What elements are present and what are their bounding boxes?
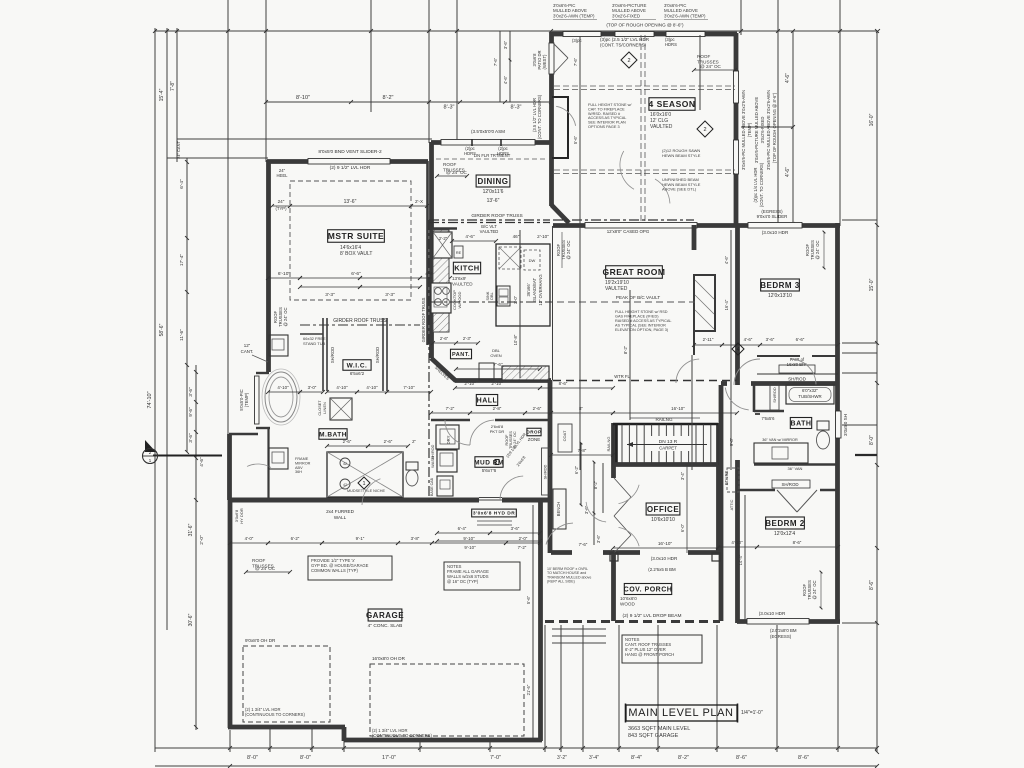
fridge enclosure bbox=[454, 246, 463, 258]
dim row office y548 bbox=[613, 547, 718, 549]
wall master suite top bbox=[267, 159, 428, 164]
svg-text:8'-10": 8'-10" bbox=[296, 95, 310, 101]
svg-text:(CONT. TO CORNERS): (CONT. TO CORNERS) bbox=[759, 162, 764, 207]
svg-text:FRAME: FRAME bbox=[295, 457, 309, 461]
svg-text:9'-6": 9'-6" bbox=[188, 407, 194, 417]
svg-text:3'-6": 3'-6" bbox=[188, 433, 194, 443]
drop zone bbox=[526, 428, 541, 436]
svg-text:10'6x10'10: 10'6x10'10 bbox=[651, 517, 675, 523]
dimension line left vertical 58-6 bbox=[166, 28, 168, 630]
stair treads bbox=[621, 425, 623, 465]
dryer laundry bbox=[436, 425, 459, 449]
svg-text:KITCH: KITCH bbox=[454, 264, 479, 273]
wall bedrm2 closet bbox=[737, 489, 775, 491]
diamond marker 2b bbox=[697, 121, 713, 137]
door arc wc nook bbox=[247, 464, 271, 467]
svg-text:2'-11": 2'-11" bbox=[703, 337, 714, 342]
slider great room north bbox=[585, 223, 697, 229]
svg-text:3'-4": 3'-4" bbox=[589, 755, 599, 761]
svg-text:17'-4": 17'-4" bbox=[179, 254, 185, 267]
svg-text:(2) 9 1/2" LVL DROP BEAM: (2) 9 1/2" LVL DROP BEAM bbox=[623, 613, 682, 619]
svg-text:ACCESS AS TYPICAL: ACCESS AS TYPICAL bbox=[588, 116, 626, 120]
svg-text:PKT DR: PKT DR bbox=[490, 429, 505, 434]
svg-text:8'-3": 8'-3" bbox=[511, 105, 522, 111]
dimension line bottom y766 bbox=[155, 765, 877, 767]
girder vertical kitchen west bbox=[428, 220, 430, 500]
dimension line left vertical 74-10 bbox=[154, 28, 156, 752]
svg-text:16'0x8'0 OH DR: 16'0x8'0 OH DR bbox=[372, 656, 406, 661]
svg-text:@ 24" OC: @ 24" OC bbox=[513, 431, 517, 448]
door chevron patio 4season bbox=[553, 43, 568, 58]
dimension line left vertical col3 bbox=[176, 28, 178, 162]
room label bedrm2 bbox=[765, 517, 805, 529]
svg-text:CARPET: CARPET bbox=[659, 446, 677, 451]
dimension vertical x510 bbox=[509, 31, 511, 102]
svg-text:3'-3": 3'-3" bbox=[325, 292, 335, 298]
window 4-season top 2 bbox=[615, 32, 654, 37]
dim row kitchen y343 bbox=[431, 341, 435, 345]
dimension line y158 horizontal bbox=[167, 157, 268, 159]
svg-text:12'0x13'10: 12'0x13'10 bbox=[768, 293, 792, 299]
svg-text:2'-6": 2'-6" bbox=[440, 336, 449, 341]
girder roof truss line dining bbox=[429, 219, 550, 221]
svg-text:4: 4 bbox=[736, 347, 739, 353]
svg-text:12": 12" bbox=[244, 343, 251, 348]
svg-text:VAULTED: VAULTED bbox=[650, 124, 673, 130]
wall kitchen angle bbox=[431, 358, 456, 381]
svg-text:7'-8": 7'-8" bbox=[578, 448, 587, 453]
wall stairs-office west bbox=[611, 423, 616, 478]
office interior dim x687 bbox=[686, 466, 688, 553]
svg-text:ROOF: ROOF bbox=[252, 558, 265, 563]
svg-text:3'-0": 3'-0" bbox=[513, 295, 518, 304]
svg-text:(TOP OF ROUGH OPENING @ 8'-6"): (TOP OF ROUGH OPENING @ 8'-6") bbox=[772, 92, 777, 163]
dim horizontal y455 entry bbox=[551, 454, 613, 456]
svg-text:6'-4": 6'-4" bbox=[458, 526, 467, 531]
svg-text:SH/ROD: SH/ROD bbox=[781, 482, 798, 487]
tub bath bbox=[786, 385, 834, 404]
svg-text:GIRDER ROOF TRUSS: GIRDER ROOF TRUSS bbox=[333, 318, 387, 324]
svg-text:2'-6": 2'-6" bbox=[384, 439, 393, 444]
dimension line left vertical col4 bbox=[186, 158, 188, 452]
window bedrm2 right bbox=[836, 411, 842, 438]
svg-text:(CONTINUOUS TO CORNERS): (CONTINUOUS TO CORNERS) bbox=[245, 712, 305, 717]
svg-text:843 SQFT GARAGE: 843 SQFT GARAGE bbox=[628, 733, 679, 739]
svg-text:58'-6": 58'-6" bbox=[159, 323, 165, 336]
svg-text:COAT: COAT bbox=[562, 430, 567, 441]
svg-text:6'-2": 6'-2" bbox=[574, 465, 579, 474]
svg-text:VAULTED: VAULTED bbox=[605, 286, 628, 292]
island sink bbox=[497, 286, 510, 306]
svg-text:SH/ROD: SH/ROD bbox=[431, 444, 435, 459]
svg-text:8'-6": 8'-6" bbox=[559, 381, 568, 386]
room label kitchen bbox=[453, 262, 480, 274]
dim row master y278 bbox=[268, 277, 300, 279]
wall kitchen north stub bbox=[431, 227, 457, 229]
island kitchen bbox=[496, 244, 550, 326]
stair newel left bbox=[615, 424, 618, 464]
svg-text:(EGRESS): (EGRESS) bbox=[761, 209, 783, 214]
bench entry bbox=[553, 489, 566, 529]
niche bump 4-season left wall bbox=[552, 97, 568, 158]
svg-text:3'-4": 3'-4" bbox=[680, 471, 685, 480]
svg-text:ISLAND/EAT: ISLAND/EAT bbox=[532, 277, 537, 302]
svg-text:2'-2": 2'-2" bbox=[439, 236, 448, 241]
svg-text:8'-0": 8'-0" bbox=[300, 755, 311, 761]
svg-text:3'0x6'6-PIC MULLED ABOVE 3'0: 3'0x6'6-PIC MULLED ABOVE 3'0x2'6-AWN bbox=[766, 90, 771, 170]
svg-text:8'-6": 8'-6" bbox=[869, 580, 875, 590]
svg-text:BEDRM 3: BEDRM 3 bbox=[760, 281, 800, 290]
svg-text:ABOVE (SEE DTL): ABOVE (SEE DTL) bbox=[662, 187, 697, 192]
svg-text:HDRS: HDRS bbox=[665, 42, 677, 47]
dim row hall y368 bbox=[456, 368, 540, 370]
arc decorative 4season bbox=[620, 151, 634, 189]
svg-text:4'-0": 4'-0" bbox=[245, 536, 254, 541]
svg-text:11'-6": 11'-6" bbox=[179, 329, 185, 341]
svg-text:MAIN LEVEL PLAN: MAIN LEVEL PLAN bbox=[628, 707, 733, 719]
svg-text:46": 46" bbox=[513, 234, 520, 239]
svg-text:8' BOX VAULT: 8' BOX VAULT bbox=[340, 251, 372, 257]
wall garage top bbox=[228, 498, 479, 503]
vertical dim foyer x594 bbox=[593, 462, 595, 545]
svg-text:3'0x2'6-FIXED: 3'0x2'6-FIXED bbox=[612, 13, 640, 18]
door arc great room to hall bbox=[676, 359, 699, 383]
dim row kitchen y240 bbox=[452, 240, 496, 242]
svg-text:(TEMP): (TEMP) bbox=[244, 392, 249, 407]
counter kitchen west bbox=[433, 230, 449, 332]
oh door 1 dashed bbox=[243, 646, 330, 722]
wall great room north bbox=[553, 223, 737, 228]
dim row hall y388 bbox=[455, 387, 540, 389]
ceiling dashes 4season h2 bbox=[554, 169, 735, 171]
svg-text:CLOSET: CLOSET bbox=[318, 400, 322, 416]
svg-text:FULL HEIGHT STONE w/: FULL HEIGHT STONE w/ bbox=[588, 103, 632, 107]
island hatch corner bbox=[499, 247, 521, 269]
room label dining bbox=[476, 175, 510, 187]
svg-text:8'-0": 8'-0" bbox=[869, 435, 875, 445]
svg-text:AS TYPICAL (SEE INTERIOR: AS TYPICAL (SEE INTERIOR bbox=[615, 324, 666, 328]
svg-text:DRY: DRY bbox=[446, 435, 451, 444]
door garage-mud threshold bbox=[479, 499, 502, 501]
wall wic top bbox=[300, 333, 323, 335]
svg-text:HEWN BEAM STYLE: HEWN BEAM STYLE bbox=[662, 153, 701, 158]
svg-text:3'-3": 3'-3" bbox=[385, 292, 395, 298]
fireplace great room bbox=[694, 275, 715, 331]
svg-text:ATTIC: ATTIC bbox=[730, 499, 734, 510]
vanity master south bbox=[269, 448, 288, 469]
svg-text:ELEVATION OPTION, PAGE 3): ELEVATION OPTION, PAGE 3) bbox=[615, 328, 669, 332]
svg-text:BENCH: BENCH bbox=[556, 502, 561, 517]
svg-text:SEE INTERIOR PLAN: SEE INTERIOR PLAN bbox=[588, 121, 626, 125]
svg-text:16'-4": 16'-4" bbox=[724, 299, 729, 310]
dimension line y139 horizontal bbox=[177, 138, 432, 140]
svg-text:SH/ROD: SH/ROD bbox=[544, 464, 548, 479]
svg-text:2'-6": 2'-6" bbox=[343, 439, 352, 444]
svg-text:CAP. TO FIREPLACE: CAP. TO FIREPLACE bbox=[588, 107, 625, 111]
closet bedrm3 wall bbox=[757, 355, 800, 357]
wall stairs bottom bbox=[613, 462, 718, 467]
door arc bedrm3 bbox=[734, 359, 760, 385]
window master top bbox=[308, 159, 390, 165]
svg-text:RAISED # ACCESS AS TYPICAL: RAISED # ACCESS AS TYPICAL bbox=[615, 319, 671, 323]
bifold doors bedrm2 closet bbox=[777, 490, 797, 512]
dimension right vertical x877 bbox=[876, 31, 878, 752]
svg-text:8'-6": 8'-6" bbox=[736, 755, 747, 761]
svg-text:SINK: SINK bbox=[486, 291, 490, 300]
svg-text:(3.0x10 HDR: (3.0x10 HDR bbox=[762, 230, 789, 235]
room label great room bbox=[603, 266, 666, 279]
door arc bath bbox=[725, 388, 748, 410]
toilet master bbox=[406, 462, 418, 470]
cooktop kitchen bbox=[431, 283, 451, 313]
wall office east bbox=[716, 423, 721, 553]
svg-text:2'-10": 2'-10" bbox=[537, 234, 549, 239]
svg-text:3'-6": 3'-6" bbox=[503, 40, 508, 49]
svg-text:BASE CAB: BASE CAB bbox=[430, 477, 434, 496]
svg-text:2'-10": 2'-10" bbox=[491, 381, 503, 386]
svg-text:8'-6": 8'-6" bbox=[798, 755, 809, 761]
hdr dim labels hall bottom bbox=[437, 532, 490, 534]
svg-text:GARAGE: GARAGE bbox=[366, 611, 404, 620]
svg-text:15'-0": 15'-0" bbox=[869, 278, 875, 291]
washer laundry bbox=[437, 450, 457, 472]
svg-text:24": 24" bbox=[278, 199, 285, 204]
oven cabinet box bbox=[479, 363, 494, 380]
svg-text:6'5x6'2: 6'5x6'2 bbox=[350, 371, 365, 376]
svg-text:12'x8'0" CASED OPG: 12'x8'0" CASED OPG bbox=[607, 229, 650, 234]
window bedrm2 south egress bbox=[747, 619, 809, 625]
svg-text:STAND TUB: STAND TUB bbox=[303, 341, 326, 346]
dimension vertical x500 bbox=[499, 31, 501, 102]
dimension line bottom y748 bbox=[155, 747, 877, 749]
svg-text:OPTIONS PAGE 3: OPTIONS PAGE 3 bbox=[588, 125, 620, 129]
dim row y343 bbox=[694, 344, 722, 346]
dim row master y287 bbox=[300, 286, 360, 288]
svg-text:7'-0": 7'-0" bbox=[490, 755, 501, 761]
diamond marker 2a bbox=[621, 52, 637, 68]
room label cov porch bbox=[624, 584, 673, 595]
wall laundry east bbox=[548, 380, 553, 553]
svg-text:(WEST): (WEST) bbox=[542, 54, 547, 69]
dim extension vertical x580 bbox=[579, 36, 581, 470]
svg-text:5'-6": 5'-6" bbox=[526, 595, 531, 604]
svg-text:3'0x2'6-AWN (TEMP): 3'0x2'6-AWN (TEMP) bbox=[664, 13, 706, 18]
svg-text:24" CANT: 24" CANT bbox=[176, 141, 181, 159]
wall porch west bbox=[611, 553, 616, 621]
dimension extension vertical x266 bbox=[265, 0, 267, 162]
dim row hall y412 bbox=[431, 412, 470, 414]
diamond marker 4 hall bbox=[732, 343, 744, 355]
svg-text:M.BATH: M.BATH bbox=[319, 431, 347, 438]
svg-text:2x4 FURRED: 2x4 FURRED bbox=[326, 509, 355, 514]
svg-text:6'-2": 6'-2" bbox=[291, 536, 300, 541]
svg-text:ABV: ABV bbox=[295, 466, 303, 470]
porch steps bbox=[552, 628, 606, 630]
wall office east x721 bbox=[719, 385, 724, 621]
svg-text:(TOP OF ROUGH OPENING @ 8'-6"): (TOP OF ROUGH OPENING @ 8'-6") bbox=[606, 23, 684, 28]
wall bedrm3 north bbox=[737, 223, 840, 228]
stairs outline bbox=[613, 424, 718, 465]
wall 4-season left bbox=[549, 33, 554, 206]
svg-text:3'0x6'8 HYD DR: 3'0x6'8 HYD DR bbox=[473, 511, 515, 517]
svg-text:6'0"x32": 6'0"x32" bbox=[802, 388, 818, 393]
window 4-season right 1 bbox=[734, 71, 739, 103]
dim row mbath bbox=[327, 445, 368, 447]
svg-text:14'-4": 14'-4" bbox=[738, 554, 743, 565]
svg-text:LIN FLR TRTMENT: LIN FLR TRTMENT bbox=[474, 153, 511, 158]
svg-text:12'0x11'6: 12'0x11'6 bbox=[483, 189, 504, 195]
window 4-season top 3 bbox=[666, 32, 705, 37]
svg-text:GIRDER ROOF TRUSS: GIRDER ROOF TRUSS bbox=[421, 297, 426, 342]
svg-text:2'-6": 2'-6" bbox=[533, 406, 542, 411]
gyp board note box bbox=[308, 556, 392, 580]
room label wic bbox=[343, 360, 371, 371]
dimension line left vertical col5 bbox=[195, 365, 197, 730]
svg-text:36H: 36H bbox=[295, 470, 302, 474]
room label laundry bbox=[474, 457, 504, 468]
dimension extension vertical x778 bbox=[777, 0, 779, 225]
svg-text:8'-4": 8'-4" bbox=[631, 755, 642, 761]
svg-text:(2) 9 1/2" LVL HDR: (2) 9 1/2" LVL HDR bbox=[330, 165, 371, 171]
tub master freestanding bbox=[265, 372, 297, 422]
vertical dim bedrm2 x745 bbox=[744, 495, 746, 620]
svg-text:6'-10": 6'-10" bbox=[278, 271, 291, 277]
wall hall south kitchen bbox=[455, 378, 551, 383]
svg-text:(TEMP): (TEMP) bbox=[747, 122, 752, 137]
svg-text:@ 24" OC: @ 24" OC bbox=[446, 170, 468, 175]
svg-text:(3.0x10 HDR: (3.0x10 HDR bbox=[651, 556, 678, 561]
vertical dim hall x731 bbox=[730, 230, 732, 470]
svg-text:42: 42 bbox=[343, 483, 347, 487]
svg-text:HEEL: HEEL bbox=[277, 173, 289, 178]
svg-text:3'0x5'0 SH: 3'0x5'0 SH bbox=[843, 414, 848, 436]
svg-text:GREAT ROOM: GREAT ROOM bbox=[603, 267, 666, 277]
peak of vault dashed bbox=[557, 301, 695, 303]
svg-text:8'-2": 8'-2" bbox=[678, 755, 689, 761]
svg-text:4'-6": 4'-6" bbox=[785, 73, 791, 83]
dim vertical x520 center bbox=[519, 230, 521, 378]
svg-text:36" VAN: 36" VAN bbox=[788, 466, 803, 471]
svg-text:(3)pc (2.5 1/2" LVL HDR: (3)pc (2.5 1/2" LVL HDR bbox=[600, 37, 650, 42]
dim vertical x700 top bbox=[699, 35, 701, 110]
svg-text:(3)pc 1/4 LVL HDR: (3)pc 1/4 LVL HDR bbox=[753, 168, 758, 203]
svg-text:10'6x6'0: 10'6x6'0 bbox=[620, 596, 637, 601]
svg-text:7'-2": 7'-2" bbox=[446, 406, 455, 411]
svg-text:4'-10": 4'-10" bbox=[731, 540, 743, 545]
shower head hex 1 bbox=[340, 458, 350, 468]
svg-text:13'-6": 13'-6" bbox=[487, 198, 500, 204]
svg-text:3'-6": 3'-6" bbox=[511, 526, 520, 531]
svg-text:(EGRESS): (EGRESS) bbox=[770, 634, 792, 639]
svg-text:@ 24" OC: @ 24" OC bbox=[700, 64, 722, 69]
sink laundry bbox=[437, 476, 453, 496]
island dw dashed bbox=[524, 250, 540, 270]
svg-text:42: 42 bbox=[343, 462, 347, 466]
svg-text:16'-0": 16'-0" bbox=[869, 113, 875, 126]
svg-text:13'-6": 13'-6" bbox=[344, 199, 357, 205]
svg-text:@ 24" OC: @ 24" OC bbox=[566, 240, 571, 259]
svg-text:OVEN: OVEN bbox=[490, 353, 501, 358]
svg-text:STAIRS: STAIRS bbox=[724, 470, 729, 485]
room label garage bbox=[366, 609, 404, 621]
dim extension vertical x692 lower bbox=[691, 355, 693, 470]
wall bath stub bbox=[755, 413, 760, 415]
svg-text:TUB/SHWR: TUB/SHWR bbox=[798, 394, 821, 399]
svg-text:7'-6": 7'-6" bbox=[579, 542, 588, 547]
dim row y390 left bbox=[268, 391, 300, 393]
svg-text:OFFICE: OFFICE bbox=[647, 505, 679, 514]
svg-text:3'0x6'6-PIC MULLED ABOVE 3'0: 3'0x6'6-PIC MULLED ABOVE 3'0x2'6-AWN bbox=[741, 90, 746, 170]
svg-text:9'-10": 9'-10" bbox=[464, 545, 476, 550]
dimension vertical x793 bbox=[792, 31, 794, 226]
svg-text:1/4"=1'-0": 1/4"=1'-0" bbox=[741, 710, 763, 716]
bottom extension verticals bbox=[229, 730, 231, 752]
svg-text:8'-6": 8'-6" bbox=[793, 540, 802, 545]
svg-text:4'-10": 4'-10" bbox=[336, 385, 348, 390]
patio door 4-season left window bbox=[549, 43, 554, 74]
svg-text:12'0x12'4: 12'0x12'4 bbox=[774, 531, 795, 537]
svg-text:4'-6": 4'-6" bbox=[465, 234, 475, 239]
vanity bath bbox=[754, 443, 808, 463]
wall master left upper bbox=[266, 160, 271, 372]
vanity master north bbox=[269, 335, 288, 356]
svg-text:(3.5'0x5'0'0 ASM: (3.5'0x5'0'0 ASM bbox=[471, 129, 505, 134]
svg-text:DROP: DROP bbox=[526, 430, 541, 435]
svg-text:4'-10": 4'-10" bbox=[366, 385, 378, 390]
svg-text:PANT.: PANT. bbox=[452, 352, 470, 358]
dimension line top horizontal y31 bbox=[155, 30, 878, 32]
svg-text:13'6x9': 13'6x9' bbox=[452, 276, 466, 281]
svg-text:12" OVERHANG: 12" OVERHANG bbox=[538, 274, 543, 305]
svg-text:(TYP): (TYP) bbox=[276, 206, 288, 211]
wall bedrm2 south bbox=[737, 619, 840, 624]
svg-text:36" VAN w/ MIRROR: 36" VAN w/ MIRROR bbox=[762, 438, 798, 442]
wall bedrm3 west bbox=[735, 225, 740, 385]
svg-text:8'-2": 8'-2" bbox=[593, 480, 598, 489]
svg-text:W/RSD. RAISED #: W/RSD. RAISED # bbox=[588, 112, 621, 116]
svg-text:PEAK OF B/C VAULT: PEAK OF B/C VAULT bbox=[616, 295, 660, 300]
svg-text:1: 1 bbox=[362, 481, 365, 487]
svg-text:MSTR SUITE: MSTR SUITE bbox=[328, 231, 384, 241]
dimension line top y102 bbox=[266, 101, 551, 103]
wall 4-season right bbox=[734, 33, 739, 226]
svg-text:31'-6": 31'-6" bbox=[188, 523, 194, 536]
shower niche diamond bbox=[358, 477, 370, 489]
svg-text:16'-10": 16'-10" bbox=[671, 406, 685, 411]
dimension extension vertical x840 top bbox=[839, 0, 841, 226]
svg-text:RAILNG: RAILNG bbox=[606, 437, 611, 452]
svg-text:(2.2'6x5 B BM: (2.2'6x5 B BM bbox=[648, 567, 676, 572]
svg-text:7'6x5'6: 7'6x5'6 bbox=[761, 416, 775, 421]
wall garage bottom bbox=[228, 725, 345, 730]
svg-text:3'0x2'6-AWN (TEMP): 3'0x2'6-AWN (TEMP) bbox=[553, 13, 595, 18]
svg-text:HY DOR: HY DOR bbox=[239, 508, 244, 524]
svg-text:7'-10": 7'-10" bbox=[403, 385, 415, 390]
svg-text:7'-6": 7'-6" bbox=[573, 57, 578, 66]
svg-text:7'-8": 7'-8" bbox=[170, 81, 176, 91]
svg-text:9'-1": 9'-1" bbox=[356, 536, 365, 541]
wall oven block bbox=[502, 366, 549, 380]
svg-text:8'-2": 8'-2" bbox=[383, 95, 394, 101]
svg-text:16'-10": 16'-10" bbox=[658, 541, 673, 546]
toilet bath bbox=[817, 421, 829, 430]
svg-text:DBL: DBL bbox=[490, 292, 494, 299]
svg-text:VAULTED: VAULTED bbox=[452, 281, 473, 286]
svg-text:7'-2": 7'-2" bbox=[518, 545, 527, 550]
room label office bbox=[646, 503, 680, 515]
wall bath entry jog bbox=[754, 410, 784, 413]
svg-text:COV. PORCH: COV. PORCH bbox=[624, 587, 673, 594]
